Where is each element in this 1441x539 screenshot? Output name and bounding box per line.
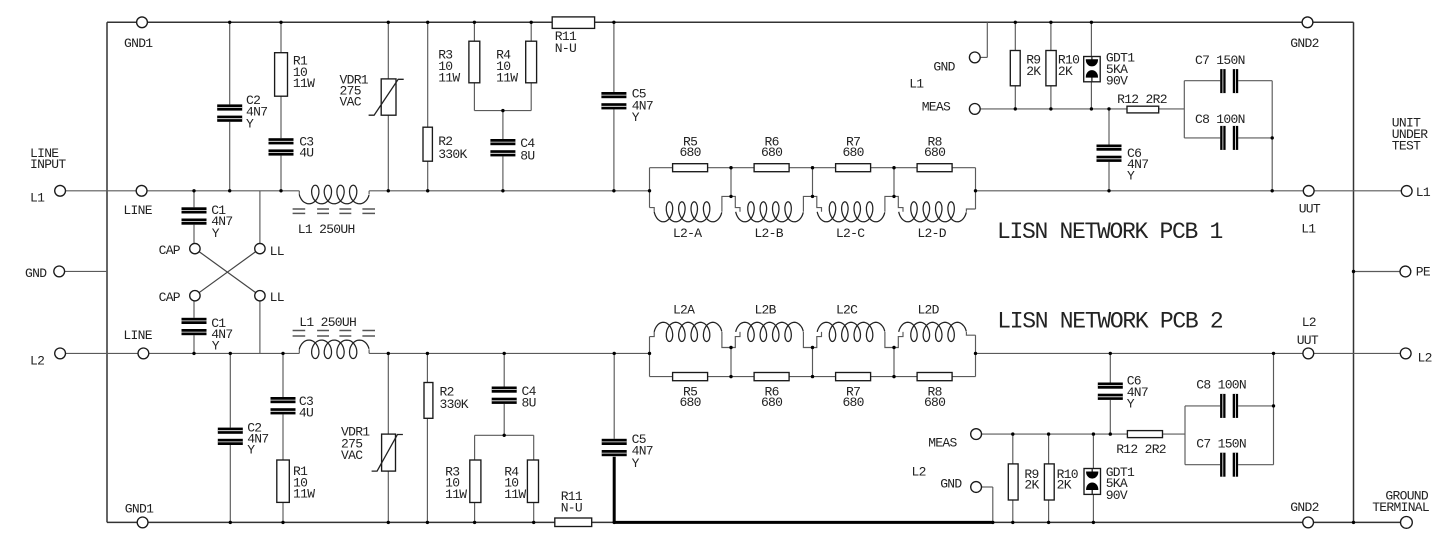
svg-text:LISN NETWORK PCB 2: LISN NETWORK PCB 2 — [997, 309, 1223, 335]
resistor R10 (PCB1) — [1046, 51, 1056, 86]
svg-text:L1 250UH: L1 250UH — [299, 315, 356, 330]
wire R2 branch bottom — [426, 353, 428, 522]
svg-text:CAP: CAP — [159, 290, 181, 305]
resistor R9 (PCB1) — [1010, 51, 1020, 86]
wire MEAS line top — [975, 108, 1185, 110]
svg-text:UUT: UUT — [1297, 333, 1319, 348]
wire GND stub top — [980, 56, 987, 58]
wire R5-R8 row top ladder — [650, 167, 976, 169]
inductor L2-D (PCB1) — [899, 202, 967, 222]
svg-text:L2D: L2D — [917, 302, 939, 317]
terminal MEAS PCB2 — [971, 429, 982, 440]
wire L2 bus right section — [976, 352, 1309, 354]
capacitor C1 (PCB2) — [182, 318, 207, 335]
terminal GND2 bottom — [1303, 517, 1314, 528]
inductor L1 250UH (PCB1) — [299, 185, 369, 204]
varistor VDR1 (PCB1) — [381, 79, 396, 115]
wire L2 bus left section — [143, 352, 299, 354]
svg-text:11W: 11W — [293, 487, 315, 502]
svg-text:4U: 4U — [299, 406, 313, 421]
junction dots misc top — [501, 109, 504, 112]
terminal LL top — [255, 243, 265, 253]
wire C5 branch top — [613, 22, 615, 191]
resistor R11 (PCB1) — [552, 17, 594, 29]
inductor L2-A (PCB1) — [654, 202, 722, 222]
svg-text:VAC: VAC — [340, 95, 362, 110]
wire R3-R4 join top — [474, 110, 531, 112]
svg-text:MEAS: MEAS — [922, 100, 951, 115]
wire crossover CAP-LL 2 — [195, 249, 260, 296]
svg-text:GND: GND — [940, 477, 962, 492]
svg-text:L1 250UH: L1 250UH — [298, 222, 355, 237]
svg-text:90V: 90V — [1106, 73, 1128, 88]
svg-text:LL: LL — [270, 290, 284, 305]
resistor R4 (PCB1) — [526, 41, 537, 83]
resistor R10 (PCB2) — [1044, 464, 1054, 500]
terminal LINE top — [136, 185, 147, 196]
svg-text:8U: 8U — [520, 148, 534, 163]
svg-text:90V: 90V — [1106, 488, 1128, 503]
capacitor C8 (PCB1) — [1220, 126, 1238, 150]
svg-text:L2-A: L2-A — [673, 226, 702, 241]
svg-text:L1: L1 — [30, 191, 45, 206]
terminal CAP bottom — [190, 291, 200, 301]
wire R9 branch bottom — [1012, 434, 1014, 522]
inductor L2B (PCB2) — [736, 322, 804, 341]
capacitor C3 (PCB2) — [271, 397, 296, 414]
wire GND input to frame — [59, 270, 107, 272]
svg-text:L2: L2 — [30, 353, 44, 368]
wire ladder1 right vertical — [975, 168, 977, 209]
inductor L1 250UH (PCB2) — [299, 340, 369, 358]
junction dots misc bottom — [503, 434, 506, 437]
svg-text:PE: PE — [1416, 265, 1431, 280]
svg-text:11W: 11W — [438, 70, 460, 85]
terminal GROUND out — [1401, 517, 1413, 529]
wire ladder1 left vertical — [649, 168, 651, 208]
resistor R12 (PCB1) — [1127, 106, 1159, 113]
wire thick bottom rail segment — [614, 521, 993, 524]
resistor R1 (PCB2) — [277, 460, 290, 502]
resistor R2 (PCB2) — [424, 383, 433, 419]
svg-text:Y: Y — [632, 456, 640, 471]
wire LL top branch — [259, 191, 261, 249]
wire R4 branch bottom — [533, 435, 535, 522]
svg-text:L1: L1 — [1301, 222, 1316, 237]
junction dots ladder bottom — [729, 375, 732, 378]
wire bottom ground rail — [107, 521, 1401, 523]
svg-text:C7 150N: C7 150N — [1196, 436, 1246, 451]
svg-text:N-U: N-U — [561, 501, 582, 516]
resistor R6 (PCB2) — [754, 373, 789, 381]
svg-text:Y: Y — [1127, 169, 1135, 184]
svg-text:C7 150N: C7 150N — [1195, 53, 1245, 68]
svg-text:11W: 11W — [496, 70, 518, 85]
wire ladder1 junction 1 — [730, 168, 732, 197]
capacitor C4 (PCB1) — [490, 139, 515, 156]
terminal L1 out — [1401, 186, 1412, 197]
wire ladder2 junction 3 — [893, 348, 895, 377]
svg-text:680: 680 — [924, 145, 945, 160]
terminal UUT L2 — [1303, 348, 1314, 359]
svg-text:330K: 330K — [440, 397, 469, 412]
gas discharge tube GDT1 (PCB1) — [1084, 57, 1101, 82]
svg-text:11W: 11W — [293, 76, 315, 91]
inductor L2D (PCB2) — [899, 322, 967, 341]
resistor R7 (PCB1) — [836, 164, 871, 172]
svg-text:GND1: GND1 — [124, 36, 153, 51]
svg-text:Y: Y — [212, 339, 220, 354]
svg-text:11W: 11W — [504, 487, 526, 502]
terminal GND PCB2 — [971, 482, 982, 493]
svg-text:L2-B: L2-B — [754, 226, 783, 241]
svg-text:GND2: GND2 — [1290, 36, 1318, 51]
capacitor C1 (PCB1) — [182, 207, 207, 224]
svg-text:TERMINAL: TERMINAL — [1372, 500, 1429, 515]
svg-text:L1: L1 — [909, 77, 924, 92]
wire L1 bus right section — [976, 190, 1309, 192]
svg-text:680: 680 — [842, 395, 863, 410]
svg-text:L2C: L2C — [836, 302, 858, 317]
terminal GND2 top — [1302, 17, 1313, 28]
wire ladder2 junction 1 — [730, 348, 732, 377]
wire top ground rail GND1-GND2 — [107, 21, 1354, 23]
terminal L2 out — [1400, 348, 1411, 359]
wire L2 input to LINE — [60, 352, 143, 354]
svg-text:N-U: N-U — [555, 41, 576, 56]
wire R4 branch top — [530, 22, 532, 110]
svg-text:LL: LL — [270, 244, 284, 259]
wire ladder1 junction 2 — [812, 168, 814, 197]
wire C6 branch top — [1108, 109, 1110, 191]
svg-text:R12 2R2: R12 2R2 — [1116, 442, 1166, 457]
svg-text:680: 680 — [842, 145, 863, 160]
wire R3 branch bottom — [474, 435, 476, 522]
svg-text:CAP: CAP — [159, 243, 181, 258]
wire L1 bus mid section — [369, 190, 649, 192]
wire UUT L1 to terminal — [1309, 190, 1407, 192]
resistor R7 (PCB2) — [836, 373, 871, 381]
svg-text:8U: 8U — [522, 396, 536, 411]
wire C2 branch top — [229, 22, 231, 191]
resistor R6 (PCB1) — [754, 164, 789, 172]
wire ladder2 right vertical — [975, 335, 977, 376]
resistor R5 (PCB2) — [673, 373, 708, 381]
svg-text:UUT: UUT — [1299, 202, 1321, 217]
svg-text:Y: Y — [1127, 397, 1135, 412]
wire C7-C8 box top — [1183, 81, 1185, 138]
svg-text:L2: L2 — [912, 464, 926, 479]
svg-text:2K: 2K — [1058, 64, 1073, 79]
svg-text:2K: 2K — [1024, 478, 1039, 493]
resistor R2 (PCB1) — [423, 127, 432, 161]
svg-text:680: 680 — [924, 395, 945, 410]
capacitor C4 (PCB2) — [492, 387, 517, 404]
capacitor C2 (PCB2) — [218, 428, 243, 445]
wire R9 branch top — [1014, 22, 1016, 109]
svg-text:GND1: GND1 — [125, 501, 154, 516]
svg-text:LISN NETWORK PCB 1: LISN NETWORK PCB 1 — [997, 219, 1223, 245]
svg-text:Y: Y — [632, 110, 640, 125]
junction dots bottom rail — [229, 521, 232, 524]
wire C4 branch top — [502, 111, 504, 191]
resistor R3 (PCB2) — [470, 460, 481, 503]
wire R1-C3 branch top — [280, 22, 282, 191]
resistor R8 (PCB2) — [917, 373, 952, 381]
svg-text:LINE: LINE — [123, 328, 152, 343]
resistor R5 (PCB1) — [673, 164, 708, 172]
junction dots MEAS bottom — [1011, 432, 1014, 435]
svg-text:L2B: L2B — [754, 302, 776, 317]
svg-text:4U: 4U — [299, 146, 313, 161]
resistor R12 (PCB2) — [1127, 431, 1162, 438]
terminal UUT L1 — [1303, 185, 1314, 196]
wire C4 branch bottom — [503, 353, 505, 435]
terminal PE out — [1400, 266, 1411, 277]
svg-text:Y: Y — [247, 442, 255, 457]
svg-text:330K: 330K — [438, 147, 467, 162]
svg-text:680: 680 — [679, 395, 700, 410]
svg-text:680: 680 — [679, 145, 700, 160]
capacitor C7 (PCB1) — [1220, 69, 1238, 93]
svg-text:L2: L2 — [1302, 315, 1316, 330]
wire R10 branch bottom — [1048, 434, 1050, 522]
capacitor C8 (PCB2) — [1220, 394, 1238, 418]
svg-text:GND: GND — [25, 266, 47, 281]
junction dots L1 bus — [192, 189, 195, 192]
svg-text:R12 2R2: R12 2R2 — [1117, 92, 1167, 107]
svg-text:LINE: LINE — [123, 203, 152, 218]
svg-text:VAC: VAC — [341, 448, 363, 463]
capacitor C5 (PCB2) — [602, 439, 627, 456]
svg-text:GND2: GND2 — [1290, 500, 1318, 515]
capacitor C7 (PCB2) — [1220, 453, 1238, 477]
junction dots L2 bus — [192, 352, 195, 355]
svg-text:2K: 2K — [1026, 64, 1041, 79]
wire PE stub — [1354, 271, 1406, 273]
gas discharge tube GDT1 (PCB2) — [1084, 469, 1101, 495]
capacitor C6 (PCB1) — [1097, 145, 1122, 162]
inductor L2-B (PCB1) — [736, 202, 804, 222]
capacitor C6 (PCB2) — [1098, 383, 1123, 400]
svg-text:GND: GND — [933, 60, 955, 75]
svg-text:L2-C: L2-C — [836, 226, 865, 241]
junction dots top rail — [228, 21, 231, 24]
svg-text:TEST: TEST — [1392, 138, 1421, 153]
svg-text:680: 680 — [761, 145, 782, 160]
terminal GND input — [54, 266, 65, 277]
inductor L2-C (PCB1) — [817, 202, 885, 222]
resistor R8 (PCB1) — [917, 164, 952, 172]
wire R5-R8 row bottom ladder — [650, 376, 976, 378]
terminal GND PCB1 — [969, 52, 980, 63]
varistor VDR1 (PCB2) — [382, 434, 396, 471]
wire ladder2 left vertical — [649, 337, 651, 377]
svg-text:INPUT: INPUT — [30, 157, 66, 172]
resistor R3 (PCB1) — [469, 41, 480, 83]
wire C3-R1 branch bottom — [282, 353, 284, 522]
wire right frame — [1353, 22, 1355, 522]
wire GDT1 branch bottom — [1092, 434, 1094, 522]
wire L1 bus left section — [142, 190, 300, 192]
junction dots ladder top — [729, 166, 732, 169]
wire GDT1 branch top — [1090, 22, 1092, 109]
wire R3 branch top — [473, 22, 475, 110]
resistor R11 (PCB2) — [555, 518, 592, 527]
resistor R4 (PCB2) — [527, 460, 538, 503]
resistor R1 (PCB1) — [275, 53, 288, 96]
terminal MEAS PCB1 — [969, 104, 980, 115]
wire L1 input to LINE — [60, 190, 142, 192]
junction dots MEAS top — [1014, 107, 1017, 110]
wire GND stub bottom — [981, 486, 992, 488]
svg-text:Y: Y — [212, 226, 220, 241]
resistor R9 (PCB2) — [1008, 464, 1018, 500]
svg-text:MEAS: MEAS — [928, 435, 957, 450]
wire ladder1 junction 3 — [893, 168, 895, 197]
svg-text:L1: L1 — [1416, 185, 1431, 200]
wire R10 branch top — [1050, 22, 1052, 109]
terminal L2 input — [55, 348, 66, 359]
terminal GND1 bottom — [137, 517, 148, 528]
svg-text:11W: 11W — [445, 487, 467, 502]
terminal LL bottom — [255, 291, 265, 301]
terminal GND1 top — [137, 17, 148, 28]
svg-text:680: 680 — [761, 395, 782, 410]
svg-text:Y: Y — [246, 117, 254, 132]
wire left frame — [106, 22, 108, 522]
capacitor C2 (PCB1) — [217, 104, 242, 121]
wire R2 branch top — [427, 22, 429, 191]
terminal CAP top — [190, 243, 200, 253]
terminal LINE bottom — [138, 348, 149, 359]
wire C2 branch bottom — [229, 353, 231, 522]
wire UUT L2 to terminal — [1308, 352, 1405, 354]
wire C5 branch bottom — [613, 353, 615, 455]
inductor L2A (PCB2) — [654, 322, 722, 341]
wire L2 bus mid section — [369, 352, 649, 354]
svg-text:2K: 2K — [1057, 478, 1072, 493]
svg-text:L2: L2 — [1418, 350, 1432, 365]
capacitor C5 (PCB1) — [601, 92, 626, 109]
wire C1 bottom branch — [193, 296, 195, 354]
capacitor C3 (PCB1) — [269, 138, 294, 155]
wire LL bottom branch — [259, 296, 261, 354]
wire crossover CAP-LL 1 — [195, 249, 260, 296]
wire C7-C8 box bottom — [1184, 406, 1186, 465]
wire VDR1 branch top — [387, 22, 389, 191]
svg-text:L2A: L2A — [673, 302, 695, 317]
wire C6 branch bottom — [1109, 353, 1111, 434]
svg-text:L2-D: L2-D — [917, 226, 946, 241]
wire C1 top branch — [193, 191, 195, 249]
svg-text:C8 100N: C8 100N — [1195, 112, 1245, 127]
inductor L2C (PCB2) — [817, 322, 885, 341]
wire R3-R4 join bottom — [475, 434, 534, 436]
svg-text:C8 100N: C8 100N — [1196, 378, 1246, 393]
wire VDR1 branch bottom — [387, 353, 389, 522]
terminal L1 input — [55, 185, 66, 196]
wire ladder2 junction 2 — [812, 348, 814, 377]
wire MEAS line bottom — [976, 433, 1185, 435]
